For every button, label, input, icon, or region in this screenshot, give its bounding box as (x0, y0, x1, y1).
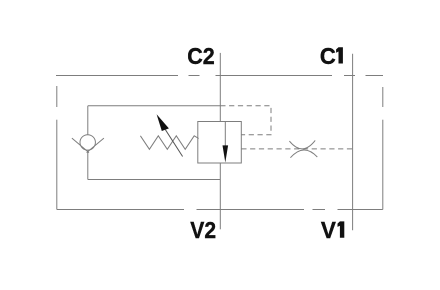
pilot line to C1 through orifice (dashed) (241, 148, 352, 150)
pilot line from C2 (dashed) (220, 106, 271, 135)
port line C2 (vertical wire) (219, 53, 221, 122)
port line C1-V1 (vertical wire) (352, 54, 354, 230)
spring (zigzag) (140, 136, 198, 150)
orifice lower arc (290, 150, 317, 158)
svg-text:V: V (321, 217, 336, 243)
svg-text:C: C (320, 43, 336, 69)
svg-text:V2: V2 (190, 217, 216, 243)
relief valve flow arrow (filled) (223, 145, 229, 162)
adjustment arrow shaft (165, 130, 182, 157)
check valve seat left arm (72, 138, 89, 153)
bypass loop left wire lower (87, 152, 89, 180)
enclosure right edge (phantom dashed) (382, 87, 384, 210)
check valve seat right arm (87, 138, 104, 153)
relief valve internal path line (224, 122, 226, 148)
relief valve body U1 (198, 122, 242, 164)
port label V1 (321, 217, 344, 243)
port label C1 (320, 43, 343, 69)
orifice upper arc (289, 140, 315, 148)
enclosure top edge (phantom dashed) (56, 75, 383, 77)
bypass loop top wire (88, 105, 221, 107)
svg-text:C2: C2 (187, 43, 215, 69)
enclosure bottom edge (phantom dashed) (57, 209, 383, 211)
bypass loop bottom wire (88, 179, 221, 181)
bypass loop left wire upper (87, 106, 89, 135)
adjustment arrow head (filled) (157, 114, 169, 131)
port line V2 (vertical wire) (219, 163, 221, 229)
enclosure left edge (phantom dashed) (56, 86, 58, 210)
check valve ball (80, 135, 95, 150)
